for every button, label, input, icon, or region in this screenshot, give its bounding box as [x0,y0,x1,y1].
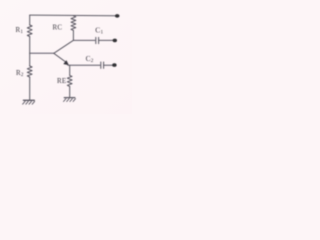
resistor R2 [27,66,32,77]
wire C2 to output [104,64,113,66]
wire RC to collector node [72,30,74,40]
ground (right) [64,98,76,102]
wire RE to ground [69,86,71,97]
capacitor C1 [96,37,99,43]
wire left vertical top [29,15,31,25]
wire emitter down to RE [69,65,71,75]
node output 2 dot [112,63,116,67]
svg-text:RC: RC [53,24,63,32]
transistor Q1 emitter lead [54,53,67,62]
transistor Q1 collector lead [54,40,74,53]
resistor RE [67,75,72,86]
node VCC terminal dot [115,14,120,18]
transistor Q1 emitter arrowhead [64,61,69,65]
ground (left) [23,100,35,104]
node output 1 dot [113,39,117,43]
wire base [30,52,54,54]
wire R2 to ground [29,77,31,100]
wire top rail [30,14,116,17]
wire C1 to output [99,39,114,41]
capacitor C2 [101,62,104,68]
wire R1 to R2 [29,37,31,67]
wire emitter node horizontal [68,64,100,66]
svg-text:RE: RE [57,77,66,85]
resistor RC [71,16,76,31]
wire collector to C1 [73,39,95,41]
resistor R1 [27,25,32,37]
